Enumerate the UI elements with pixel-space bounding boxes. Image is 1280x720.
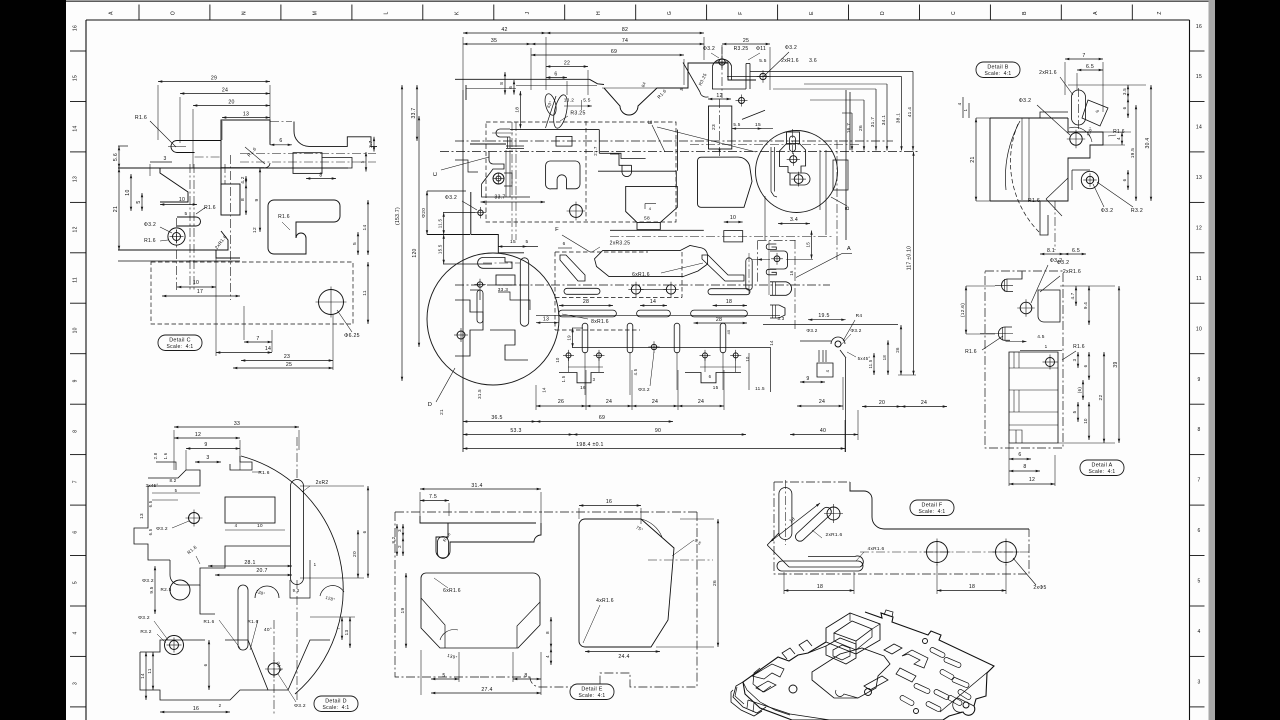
svg-text:Scale: 4:1: Scale: 4:1: [1089, 469, 1116, 475]
chevron slots right of F: [702, 255, 744, 281]
svg-text:8: 8: [319, 173, 322, 179]
svg-text:15: 15: [510, 239, 516, 245]
svg-text:2xΦ5: 2xΦ5: [1033, 585, 1046, 591]
svg-text:G: G: [667, 11, 673, 15]
svg-text:1: 1: [1045, 344, 1048, 349]
dashed region F: [555, 252, 682, 330]
svg-text:4xR1.6: 4xR1.6: [868, 546, 885, 552]
dashdot through right arm: [240, 153, 376, 155]
arm lower blocks: [293, 153, 322, 174]
svg-text:6: 6: [1083, 364, 1088, 367]
svg-text:20: 20: [879, 400, 885, 406]
D right dims: [357, 530, 359, 578]
step outline middle: [160, 168, 188, 202]
svg-text:1.6: 1.6: [163, 452, 168, 459]
2xR2 slot: [291, 480, 304, 585]
svg-text:14: 14: [73, 125, 79, 131]
svg-text:6.5: 6.5: [1072, 248, 1080, 254]
svg-text:12: 12: [252, 227, 258, 233]
iso diamond cutout: [884, 644, 902, 654]
svg-text:Φ3.2: Φ3.2: [156, 526, 168, 532]
iso raised box 2 (small): [826, 638, 856, 664]
long horizontal edge: [118, 167, 348, 169]
long part edge below slots: [572, 347, 770, 349]
iso small parts on platform: [864, 676, 888, 690]
svg-text:9: 9: [254, 198, 260, 201]
svg-text:69: 69: [599, 415, 605, 421]
svg-text:Φ3.2: Φ3.2: [445, 195, 457, 201]
svg-text:6: 6: [1018, 452, 1021, 458]
A right dims: [1075, 286, 1077, 306]
svg-text:24: 24: [819, 399, 825, 405]
bottom dim rows central: [462, 90, 464, 452]
big detail circle B: [756, 131, 838, 213]
svg-text:18: 18: [882, 355, 887, 361]
main body detail A: [1009, 352, 1058, 443]
small circle mid: [189, 513, 200, 524]
svg-text:17: 17: [197, 289, 203, 295]
svg-text:6xR1.6: 6xR1.6: [443, 588, 461, 594]
svg-text:5: 5: [526, 239, 529, 245]
hooks top-left: [1001, 272, 1022, 292]
svg-text:3.4: 3.4: [790, 217, 798, 223]
svg-text:4: 4: [73, 631, 79, 634]
iso main plate outline: [743, 612, 994, 720]
svg-text:6: 6: [1197, 528, 1200, 534]
B bottom tail: [1040, 201, 1048, 235]
svg-text:12: 12: [716, 93, 722, 99]
svg-text:Φ3.2: Φ3.2: [294, 703, 306, 709]
svg-text:7: 7: [336, 627, 341, 630]
svg-text:41.4: 41.4: [907, 107, 913, 118]
svg-text:35: 35: [491, 38, 497, 44]
svg-text:8.2: 8.2: [169, 478, 176, 483]
svg-text:6.5: 6.5: [148, 500, 153, 507]
svg-text:6: 6: [279, 138, 282, 144]
svg-text:3: 3: [206, 455, 209, 461]
svg-text:2xR3.25: 2xR3.25: [610, 241, 631, 247]
svg-text:13: 13: [139, 513, 144, 519]
iso left cutouts: [752, 664, 784, 679]
tab with R1.6: [177, 217, 201, 226]
svg-text:20: 20: [228, 100, 234, 106]
mid tall rect 23: [709, 106, 732, 149]
svg-text:Φ3.2: Φ3.2: [785, 45, 797, 51]
svg-text:9: 9: [73, 379, 79, 382]
svg-text:5: 5: [442, 673, 445, 679]
E dash-dot boundary: [395, 511, 542, 513]
svg-text:6: 6: [203, 663, 208, 666]
D bottom-left outline: [140, 640, 268, 700]
svg-text:30.4: 30.4: [1145, 138, 1151, 149]
svg-text:7: 7: [256, 336, 259, 342]
top right arm: [293, 122, 295, 132]
svg-text:Φ3.2: Φ3.2: [850, 328, 861, 333]
svg-text:13: 13: [1196, 175, 1202, 181]
D left step shapes: [130, 486, 148, 540]
svg-text:4.5: 4.5: [1037, 334, 1045, 340]
iso central platform: [812, 648, 890, 698]
svg-text:53.3: 53.3: [510, 428, 521, 434]
svg-text:R1.6: R1.6: [1073, 344, 1085, 350]
svg-text:6: 6: [563, 241, 566, 246]
svg-text:22: 22: [564, 61, 570, 67]
bottom circle: [268, 663, 280, 675]
svg-text:H: H: [596, 11, 602, 15]
svg-text:5.5: 5.5: [759, 58, 767, 64]
svg-text:90: 90: [655, 428, 661, 434]
svg-text:11: 11: [147, 668, 152, 673]
svg-text:3.6: 3.6: [809, 58, 817, 64]
svg-text:82: 82: [622, 27, 628, 33]
12.6 dim: [965, 286, 967, 334]
E bottom boundary steps: [480, 560, 697, 687]
folded wall rect: [745, 64, 747, 90]
mid outline: [170, 546, 290, 585]
svg-text:2.8: 2.8: [153, 452, 158, 459]
iso slash slots right field: [930, 648, 945, 658]
part left edge steps: [470, 192, 472, 235]
F left arm shapes: [779, 488, 792, 540]
svg-text:20: 20: [352, 551, 358, 557]
svg-text:24: 24: [921, 400, 927, 406]
svg-text:2: 2: [397, 545, 402, 548]
bottom edge with down-tabs: [559, 373, 604, 383]
svg-text:25: 25: [286, 362, 292, 368]
svg-text:14: 14: [362, 225, 368, 231]
svg-text:12: 12: [1029, 477, 1035, 483]
svg-text:33.3: 33.3: [498, 287, 509, 293]
svg-text:3: 3: [593, 377, 596, 382]
chamfer edge: [742, 110, 765, 119]
svg-text:Detail F: Detail F: [922, 503, 943, 509]
svg-text:5: 5: [352, 242, 358, 245]
svg-text:12: 12: [73, 226, 79, 232]
svg-text:13: 13: [243, 112, 249, 118]
central pocket shape: [595, 246, 708, 277]
svg-text:5.5: 5.5: [583, 98, 591, 104]
iso holes: [923, 639, 928, 644]
small brackets below tab: [770, 282, 792, 296]
big circle phi6.25: [319, 290, 344, 315]
svg-text:28: 28: [716, 317, 722, 323]
svg-text:R3.2: R3.2: [140, 629, 151, 635]
leftover verticals central bottom: [584, 352, 586, 395]
region C inner dashed divider: [585, 121, 587, 221]
svg-text:18: 18: [817, 584, 823, 590]
A bottom dims: [1009, 458, 1031, 460]
detail B part outline: [990, 118, 1068, 201]
region C circle: [570, 205, 583, 218]
E lower-left rounded rect: [421, 573, 540, 648]
svg-text:5.6: 5.6: [113, 153, 119, 161]
svg-text:7: 7: [73, 480, 79, 483]
circle boss at slot end: [827, 507, 840, 520]
svg-text:15: 15: [1196, 74, 1202, 80]
10 dim mid: [724, 221, 743, 223]
phi3.2 small hole mid: [651, 344, 656, 349]
svg-text:9.4: 9.4: [1083, 302, 1088, 309]
svg-text:15: 15: [755, 122, 761, 128]
left black letterbox bar: [0, 0, 66, 720]
lower mid features: [200, 585, 215, 614]
left vertical dims: [416, 85, 418, 141]
svg-text:Detail B: Detail B: [987, 65, 1008, 71]
rounded cutout shape right: [268, 200, 340, 254]
svg-text:26: 26: [712, 580, 718, 586]
svg-text:18: 18: [726, 299, 732, 305]
svg-text:11: 11: [362, 290, 368, 296]
svg-text:6xR1.6: 6xR1.6: [632, 272, 650, 278]
svg-text:6.5: 6.5: [148, 528, 153, 535]
svg-text:Detail C: Detail C: [169, 338, 191, 344]
svg-text:4: 4: [235, 523, 238, 528]
svg-text:R1.6: R1.6: [278, 214, 290, 220]
view top-left: flat part: [157, 85, 159, 140]
boss circle: [168, 228, 185, 245]
svg-text:R1.6: R1.6: [144, 238, 156, 244]
E top dims: [420, 488, 541, 490]
svg-text:16: 16: [73, 25, 79, 31]
svg-text:R4: R4: [856, 313, 863, 319]
svg-text:24.4: 24.4: [618, 654, 629, 660]
svg-text:6: 6: [554, 72, 557, 78]
part edges to fan: [750, 71, 913, 73]
detail A dash-dot boundary: [985, 271, 1063, 448]
svg-text:R3.2: R3.2: [1131, 208, 1143, 214]
svg-text:10: 10: [1196, 326, 1202, 332]
svg-text:10: 10: [179, 197, 185, 203]
small hole right: [760, 73, 766, 79]
117 dim: [913, 152, 915, 376]
right black letterbox bar: [1215, 0, 1280, 720]
angled tab: [1082, 100, 1108, 126]
svg-text:Φ3.2: Φ3.2: [1050, 258, 1063, 264]
svg-text:A: A: [109, 11, 115, 15]
svg-text:Φ3.2: Φ3.2: [1019, 98, 1032, 104]
svg-text:11: 11: [1196, 276, 1202, 282]
svg-text:198.4 ±0.1: 198.4 ±0.1: [576, 442, 603, 448]
small rect on bend line: [556, 136, 572, 146]
detail D tag: [314, 696, 358, 712]
svg-text:24: 24: [652, 399, 658, 405]
phi3.2 hole: [1020, 302, 1032, 314]
svg-text:Φ3.2: Φ3.2: [138, 615, 150, 621]
28.1/20.7 dims: [208, 565, 292, 567]
svg-text:2xR1.6: 2xR1.6: [781, 58, 799, 64]
E right rounded rect: [579, 519, 674, 647]
part outline upper: half-round tab: [171, 141, 195, 153]
iso right tab: [953, 698, 974, 712]
svg-text:4: 4: [825, 369, 830, 372]
svg-text:Φ3.2: Φ3.2: [144, 222, 156, 228]
svg-text:10: 10: [1083, 418, 1088, 424]
svg-text:R1.6: R1.6: [965, 349, 977, 355]
svg-text:A: A: [847, 246, 851, 252]
top edge outline central: [455, 78, 590, 80]
svg-text:14: 14: [769, 340, 774, 346]
svg-text:39: 39: [1113, 361, 1119, 367]
svg-text:5: 5: [175, 488, 178, 493]
svg-text:Φ11: Φ11: [756, 46, 766, 52]
svg-text:R1.6: R1.6: [204, 619, 215, 624]
svg-text:21: 21: [113, 206, 119, 212]
svg-text:10: 10: [125, 189, 131, 195]
B dims left/right: [975, 118, 977, 201]
svg-text:8: 8: [73, 430, 79, 433]
central rect: [225, 497, 275, 523]
svg-text:Scale: 4:1: Scale: 4:1: [919, 509, 946, 515]
chamfer tab 2xR1.6: [216, 231, 228, 250]
svg-text:Scale: 4:1: Scale: 4:1: [579, 693, 606, 699]
svg-text:28: 28: [583, 299, 589, 305]
F tag: [910, 500, 954, 516]
F bottom dims: [784, 590, 854, 592]
svg-text:R1.6: R1.6: [258, 470, 269, 476]
svg-text:10: 10: [193, 280, 199, 286]
iso top small tabs: [782, 648, 795, 659]
svg-text:8xR1.6: 8xR1.6: [591, 319, 609, 325]
vertical center dashdots: [176, 218, 178, 290]
svg-text:3: 3: [73, 682, 79, 685]
phi3.2 circle: [1070, 133, 1082, 145]
svg-text:5: 5: [73, 581, 79, 584]
svg-text:3x45°: 3x45°: [146, 483, 159, 488]
svg-text:4.7: 4.7: [1070, 292, 1075, 299]
svg-text:2xR2: 2xR2: [316, 480, 329, 486]
svg-text:5: 5: [1072, 410, 1077, 413]
iso chevron slot: [902, 650, 928, 668]
svg-text:A: A: [1093, 11, 1099, 15]
svg-text:31.4: 31.4: [471, 483, 482, 489]
svg-text:23: 23: [711, 124, 717, 130]
vertical slot right of pocket: [746, 258, 752, 290]
svg-text:Scale: 4:1: Scale: 4:1: [167, 344, 194, 350]
svg-text:Φ3.2: Φ3.2: [1101, 208, 1114, 214]
svg-text:40°: 40°: [264, 627, 272, 633]
svg-text:11: 11: [73, 277, 79, 283]
svg-text:45: 45: [726, 329, 731, 335]
svg-text:36.5: 36.5: [491, 415, 502, 421]
left mid shapes: [610, 154, 632, 165]
svg-text:15: 15: [713, 385, 719, 390]
svg-text:9: 9: [806, 376, 809, 382]
svg-text:6: 6: [1122, 106, 1127, 109]
svg-text:14: 14: [265, 346, 271, 352]
svg-text:R1.6: R1.6: [135, 115, 147, 121]
svg-text:Detail E: Detail E: [581, 687, 602, 693]
big detail circle D: [427, 253, 559, 385]
diagonal 18 dimension: [770, 503, 820, 542]
dashed region C: [486, 122, 676, 222]
detail B tag: [976, 62, 1020, 78]
left steps and boss: [482, 152, 504, 184]
svg-text:2xR1.6: 2xR1.6: [1039, 70, 1057, 76]
region C contents: top stadium tab: [496, 129, 510, 137]
E left solid outline: [420, 516, 541, 558]
svg-text:19: 19: [567, 335, 572, 341]
long dash-dot bend lines: [455, 140, 893, 142]
svg-text:24: 24: [222, 88, 228, 94]
svg-text:12: 12: [1196, 225, 1202, 231]
F top right outline: [850, 482, 1029, 529]
svg-text:N: N: [241, 11, 247, 15]
D top dims: [174, 426, 299, 428]
svg-text:6: 6: [73, 531, 79, 534]
svg-text:14: 14: [140, 673, 145, 679]
bottom left circle boss: [165, 636, 184, 655]
svg-text:R3.25: R3.25: [570, 111, 585, 117]
svg-text:Φ3.2: Φ3.2: [806, 328, 817, 333]
svg-text:3.7: 3.7: [368, 140, 373, 147]
svg-text:E: E: [648, 120, 654, 124]
svg-text:(6): (6): [1077, 387, 1082, 394]
svg-text:10: 10: [555, 357, 560, 363]
svg-text:4xR1.6: 4xR1.6: [596, 598, 614, 604]
svg-text:Φ3.2: Φ3.2: [638, 387, 650, 393]
svg-text:Φ3.2: Φ3.2: [142, 578, 154, 584]
svg-text:11.5: 11.5: [755, 386, 765, 391]
top ruler ticks and letters: [138, 5, 140, 21]
svg-text:33: 33: [234, 421, 240, 427]
svg-text:8.2: 8.2: [391, 536, 396, 543]
right column features: [820, 150, 826, 235]
svg-text:29: 29: [211, 76, 217, 82]
svg-text:10: 10: [730, 215, 736, 221]
svg-text:42: 42: [501, 27, 507, 33]
iso left flange stack: [733, 682, 766, 713]
svg-text:3: 3: [397, 529, 402, 532]
svg-text:33.7: 33.7: [411, 108, 417, 119]
svg-text:Φ6.25: Φ6.25: [344, 333, 360, 339]
svg-text:5: 5: [136, 200, 142, 203]
svg-text:R1.6: R1.6: [204, 205, 216, 211]
pentagon shape: [698, 157, 753, 207]
svg-text:19.5: 19.5: [818, 313, 829, 319]
svg-text:16: 16: [606, 499, 612, 505]
svg-text:5: 5: [1197, 579, 1200, 585]
svg-text:8.1: 8.1: [1047, 248, 1055, 254]
svg-text:120: 120: [412, 248, 418, 257]
svg-text:26: 26: [895, 347, 900, 353]
svg-text:Scale: 4:1: Scale: 4:1: [985, 71, 1012, 77]
border frame lines: [86, 19, 1190, 21]
svg-text:R1.6: R1.6: [1028, 198, 1040, 204]
detail E tag: [570, 684, 614, 700]
svg-text:4: 4: [1116, 137, 1121, 140]
F circles: [927, 542, 948, 563]
bottom dashed rect: [151, 262, 353, 324]
svg-text:58: 58: [644, 216, 650, 222]
iso inner bottom edge: [748, 700, 830, 720]
svg-text:E: E: [809, 11, 815, 15]
svg-text:3: 3: [1072, 358, 1077, 361]
svg-text:18: 18: [969, 584, 975, 590]
svg-text:6: 6: [362, 530, 367, 533]
svg-text:2: 2: [219, 703, 222, 708]
svg-text:4: 4: [1197, 629, 1200, 635]
detail A tag: [1080, 460, 1124, 476]
svg-text:5.5: 5.5: [733, 122, 740, 127]
thick left edge: [470, 143, 506, 145]
svg-text:16: 16: [1196, 24, 1202, 30]
svg-text:34.1: 34.1: [881, 115, 887, 126]
R2.5 boss: [170, 580, 190, 600]
svg-text:8: 8: [524, 673, 527, 679]
svg-text:3: 3: [163, 156, 166, 162]
vertical stadium slots: [582, 323, 588, 353]
svg-text:C: C: [951, 11, 957, 15]
